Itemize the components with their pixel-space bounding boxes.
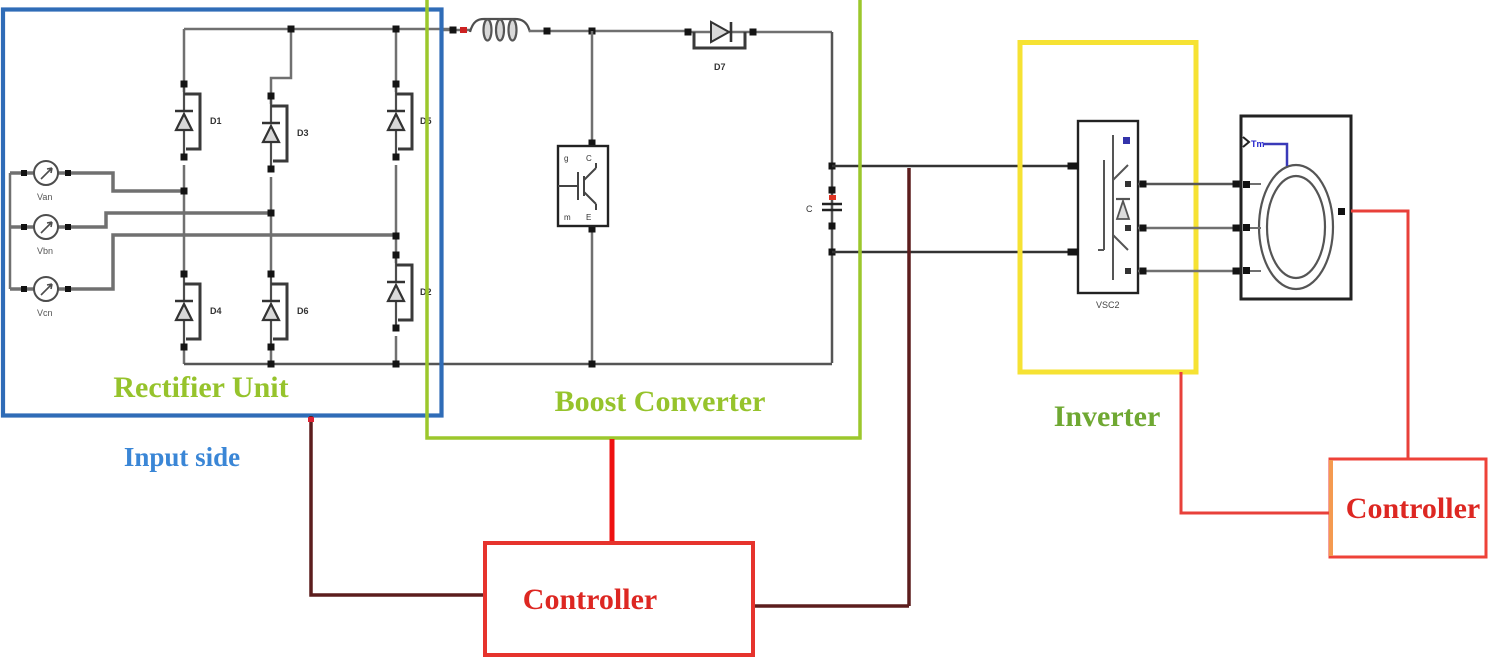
thyristor D2: [387, 255, 412, 328]
thyristor D3: [262, 96, 287, 169]
svg-text:D6: D6: [297, 306, 309, 316]
box controller1 (red): [485, 543, 753, 655]
svg-text:Controller: Controller: [523, 583, 657, 616]
wire leg2 vertical: [271, 29, 291, 364]
svg-text:VSC2: VSC2: [1096, 300, 1120, 310]
svg-text:D4: D4: [210, 306, 222, 316]
motor block: [1241, 116, 1351, 299]
inverter block VSC2: [1078, 121, 1138, 310]
svg-text:D1: D1: [210, 116, 222, 126]
svg-text:Van: Van: [37, 192, 52, 202]
wire dc- to inverter: [832, 251, 1077, 254]
capacitor C: [806, 187, 842, 230]
wire rectifier top bus: [184, 28, 455, 31]
node top bus leg2: [288, 26, 295, 33]
wire phase C: [1138, 270, 1241, 273]
transistor IGBT boost switch: [558, 146, 608, 226]
node dc+: [829, 163, 836, 170]
wire left phase bus: [9, 173, 12, 289]
node leg3 phase junction: [393, 233, 400, 240]
thyristor D1: [175, 84, 200, 157]
thyristor D4: [175, 274, 200, 347]
node dc-: [829, 249, 836, 256]
svg-text:E: E: [586, 213, 591, 222]
svg-text:Input side: Input side: [124, 442, 240, 472]
box boost converter (green): [427, 0, 860, 438]
wire inverter to controller2 (red): [1181, 372, 1330, 513]
wire boost output vertical: [831, 32, 834, 363]
svg-text:Vcn: Vcn: [37, 308, 53, 318]
node bottom bus leg2: [268, 361, 275, 368]
svg-text:Tm: Tm: [1251, 139, 1265, 149]
svg-text:Boost Converter: Boost Converter: [555, 385, 766, 418]
wire motor m to controller2 (red): [1351, 211, 1408, 458]
node vsc2 dc-: [1072, 249, 1079, 256]
inductor L: [470, 19, 530, 41]
svg-text:Rectifier Unit: Rectifier Unit: [113, 371, 288, 404]
svg-text:Controller: Controller: [1346, 492, 1480, 525]
node bottom bus leg3: [393, 361, 400, 368]
node top bus leg3: [393, 26, 400, 33]
svg-text:C: C: [586, 154, 592, 163]
wire boost to controller1 (thick red): [610, 439, 615, 543]
node leg2 phase junction: [268, 210, 275, 217]
thyristor D6: [262, 274, 287, 347]
source Van: [21, 161, 71, 185]
node leg1 phase junction: [181, 188, 188, 195]
wire phase B: [1138, 227, 1241, 230]
wire leg3 vertical: [395, 29, 398, 364]
svg-text:Inverter: Inverter: [1054, 400, 1161, 433]
svg-text:g: g: [564, 154, 568, 163]
wire rectifier to controller1 (maroon): [311, 416, 485, 595]
wire source1 to leg1: [10, 173, 184, 191]
source Vcn: [21, 277, 71, 301]
wire igbt branch: [591, 31, 594, 364]
svg-text:m: m: [564, 213, 571, 222]
thyristor D5: [387, 84, 412, 157]
box inverter (yellow): [1020, 43, 1196, 373]
wire source3 to leg3: [10, 235, 396, 289]
diode D7: [685, 22, 833, 72]
wire inductor to igbt node: [529, 30, 688, 33]
wire rectifier bottom bus: [184, 363, 832, 366]
wire top bus to inductor: [441, 29, 470, 32]
box rectifier unit (blue): [3, 10, 442, 416]
box controller2 (red/orange): [1330, 459, 1486, 557]
wire leg1 vertical: [183, 29, 186, 364]
source Vbn: [21, 215, 71, 239]
node vsc2 dc+: [1072, 163, 1079, 170]
wire phase A: [1138, 183, 1241, 186]
svg-text:C: C: [806, 204, 813, 214]
svg-text:D3: D3: [297, 128, 309, 138]
node red current tap: [460, 27, 467, 33]
wire source2 to leg2: [10, 213, 271, 227]
wire dc+ to inverter: [832, 165, 1077, 168]
wire controller1 to dc bus (maroon): [753, 168, 909, 606]
svg-text:Vbn: Vbn: [37, 246, 53, 256]
svg-text:D7: D7: [714, 62, 726, 72]
